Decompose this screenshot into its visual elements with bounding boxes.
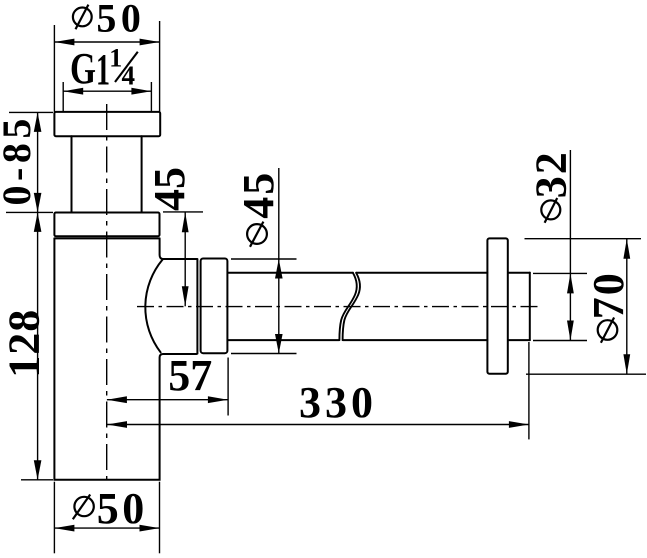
dia32 ext lines xyxy=(533,272,587,274)
57 arrows xyxy=(107,396,127,403)
joint line 1 xyxy=(196,259,198,354)
svg-text:45: 45 xyxy=(234,171,283,219)
tailpiece pipe right edge xyxy=(141,136,143,212)
dia32 arrows xyxy=(567,273,574,293)
57 right ext line xyxy=(227,358,229,416)
dia45 ext lines xyxy=(231,258,297,260)
128 bottom ext line xyxy=(21,479,53,481)
svg-text:0-85: 0-85 xyxy=(0,114,39,205)
330 arrows xyxy=(107,421,127,428)
dia symbol top 50 xyxy=(73,5,92,30)
dome arc xyxy=(145,260,162,353)
svg-text:1: 1 xyxy=(109,44,122,73)
G1/4 dim line xyxy=(63,90,151,92)
svg-text:70: 70 xyxy=(584,271,633,319)
tailpiece pipe left edge xyxy=(71,136,73,212)
svg-text:50: 50 xyxy=(97,484,148,533)
outlet slip nut xyxy=(201,259,228,354)
0-85 ext lines xyxy=(9,111,53,113)
svg-text:32: 32 xyxy=(526,150,575,198)
text dia32 rotated xyxy=(541,198,560,223)
dia70 dim line xyxy=(626,239,628,375)
text dia70 rotated xyxy=(598,318,618,343)
text dia45 rotated xyxy=(247,222,267,247)
57 dim line xyxy=(107,399,228,401)
dia50 top arrows xyxy=(54,39,74,46)
body seam line xyxy=(54,237,159,239)
dia50 top dim line xyxy=(54,41,159,43)
45 dim line xyxy=(184,212,186,306)
svg-text:128: 128 xyxy=(0,309,48,378)
body cup xyxy=(54,238,196,479)
dia50 bottom ext lines xyxy=(53,482,55,554)
svg-text:57: 57 xyxy=(168,351,212,400)
pipe bottom line xyxy=(228,339,530,341)
top flange xyxy=(54,112,160,136)
dia70 arrows xyxy=(623,239,630,259)
330 right ext line xyxy=(528,342,530,439)
45 arrows xyxy=(182,212,189,232)
45 top ext line xyxy=(163,211,203,213)
body top nut xyxy=(54,213,159,237)
break curve left xyxy=(339,273,356,340)
dia32 dim line xyxy=(569,150,571,341)
svg-text:50: 50 xyxy=(96,0,145,41)
128 arrows xyxy=(34,212,42,232)
dia45 dim line xyxy=(278,168,280,354)
0-85 / 128 dim line xyxy=(37,112,39,479)
dia45 arrows xyxy=(275,259,283,279)
svg-text:1: 1 xyxy=(96,45,110,94)
pipe end cap xyxy=(529,273,531,341)
svg-text:330: 330 xyxy=(299,378,377,427)
G1/4 arrows xyxy=(63,88,83,95)
0-85 arrows xyxy=(34,112,42,131)
svg-text:G: G xyxy=(70,44,96,93)
pipe top line xyxy=(228,272,530,274)
dia symbol bottom 50 xyxy=(73,495,94,520)
dia50 top ext lines xyxy=(53,25,55,112)
G1/4 ext lines xyxy=(62,82,64,112)
break curve right xyxy=(343,273,360,340)
wall flange xyxy=(487,238,507,373)
dia50 bottom arrows xyxy=(54,525,74,532)
vertical centerline xyxy=(106,104,108,485)
dia70 ext lines xyxy=(525,238,642,240)
svg-text:45: 45 xyxy=(145,167,194,211)
dia50 bottom dim line xyxy=(54,527,159,529)
svg-text:4: 4 xyxy=(122,60,136,90)
330 dim line xyxy=(107,424,529,426)
horizontal centerline xyxy=(137,306,539,308)
